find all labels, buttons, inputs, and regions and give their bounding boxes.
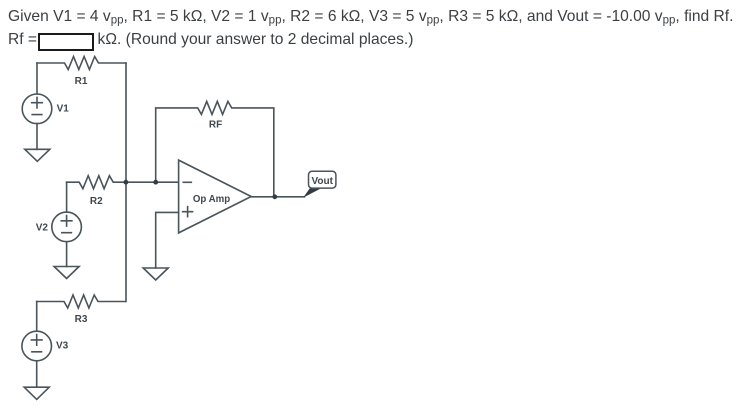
svg-text:V3: V3 [56,341,69,352]
svg-text:R3: R3 [75,314,88,325]
svg-text:Vout: Vout [311,176,333,187]
svg-text:RF: RF [209,120,222,131]
svg-text:Op Amp: Op Amp [193,194,230,205]
svg-text:R1: R1 [75,76,88,87]
svg-text:R2: R2 [90,196,103,207]
svg-text:V2: V2 [36,223,49,234]
svg-text:V1: V1 [57,103,70,114]
